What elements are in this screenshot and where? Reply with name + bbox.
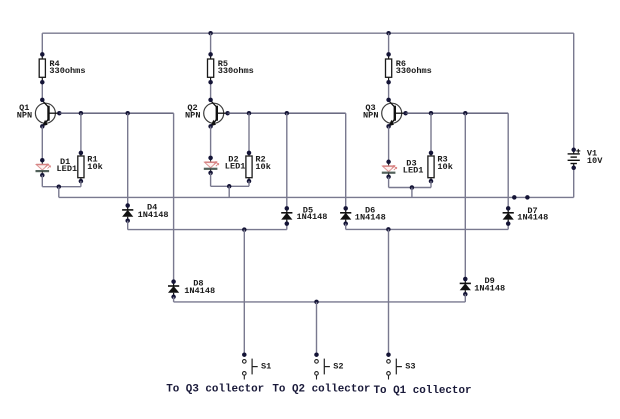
junction V1 positive pin (571, 148, 576, 153)
resistor R4 (39, 54, 45, 82)
label R3 10k (437, 155, 452, 172)
label S3 (405, 362, 415, 372)
junction node stage1 cathode (57, 184, 62, 189)
diode D5 (281, 208, 292, 223)
transistor Q2 (204, 101, 228, 127)
wire R5 to Q2 collector (210, 82, 212, 100)
wire battery negative drop (573, 168, 575, 198)
junction bus2a S1 tap (242, 227, 247, 232)
wire stage3 to ground bus (411, 188, 413, 198)
svg-text:To Q2 collector: To Q2 collector (272, 384, 370, 396)
svg-text:LED1: LED1 (57, 164, 78, 174)
wire Q3 emitter to D3 (388, 126, 390, 162)
LED D2 (204, 158, 219, 173)
transistor Q1 (35, 101, 59, 127)
transistor Q3 (382, 101, 406, 127)
wire LED1 bottom bus (42, 186, 81, 188)
resistor R5 (208, 54, 214, 82)
switch S1 (243, 359, 258, 380)
junction Q3 collector pin (386, 98, 391, 103)
svg-text:330ohms: 330ohms (396, 66, 432, 76)
wire D1 cathode drop (41, 175, 43, 187)
wire D9 anode drop (464, 294, 466, 302)
junction node stage3 cathode (410, 185, 415, 190)
junction D2 anode pin (208, 156, 213, 161)
wire Q1 base bus (59, 112, 173, 114)
label Q3 NPN (363, 103, 378, 120)
junction D8 cathode pin (171, 279, 176, 284)
junction Q3 base pin (403, 111, 408, 116)
wire R5 to rail (210, 33, 212, 55)
wire R4 to rail (41, 33, 43, 55)
junction node stage2 cathode (227, 184, 232, 189)
junction rail stage2 (208, 31, 213, 36)
junction R6 bottom pin (386, 80, 391, 85)
junction Q2 emitter pin (208, 124, 213, 128)
diode D6 (340, 208, 351, 223)
junction S3 top pin (386, 352, 391, 357)
junction D1 anode pin (40, 158, 45, 163)
label Q2 NPN (185, 103, 200, 120)
wire R1 bottom drop (80, 181, 82, 187)
svg-text:S3: S3 (405, 362, 415, 372)
svg-text:LED1: LED1 (403, 165, 424, 175)
label D7 1N4148 (517, 206, 548, 223)
wire bus2a D4-S1-D5 (128, 229, 287, 231)
wire R2 bottom drop (248, 181, 250, 186)
label D4 1N4148 (138, 203, 169, 220)
junction D3 cathode pin (386, 175, 391, 180)
label S2 (333, 362, 343, 372)
svg-text:10V: 10V (587, 156, 603, 166)
junction D9 anode pin (463, 292, 468, 297)
junction D7 cathode pin (506, 206, 511, 211)
svg-text:10k: 10k (87, 162, 102, 172)
junction R2 top pin (247, 151, 252, 156)
label R4 330ohms (49, 59, 85, 76)
junction R5 bottom pin (208, 80, 213, 85)
svg-text:1N4148: 1N4148 (138, 210, 169, 220)
wire base1 to R1 (80, 113, 82, 153)
svg-text:330ohms: 330ohms (218, 66, 254, 76)
junction D1 cathode pin (40, 173, 45, 178)
wire R6 to rail (388, 33, 390, 55)
junction R6 top pin (386, 52, 391, 57)
label D3 LED1 (403, 158, 424, 175)
junction D6 anode pin (343, 221, 348, 226)
junction S1 top pin (242, 352, 247, 357)
wire bus2b D6-S3-D7 (346, 228, 509, 230)
svg-text:NPN: NPN (17, 110, 32, 120)
wire ground bus (59, 196, 574, 198)
svg-text:S2: S2 (333, 362, 343, 372)
junction base1-R1 (79, 111, 84, 116)
junction D4 anode pin (125, 218, 130, 223)
junction Q1 collector pin (40, 98, 45, 103)
wire D5 anode riser (286, 224, 288, 230)
junction D4 cathode pin (125, 203, 130, 208)
label D9 1N4148 (474, 276, 505, 294)
resistor R2 (246, 151, 252, 183)
svg-text:S1: S1 (261, 362, 271, 372)
wire stage1 to ground bus (58, 187, 60, 198)
junction Q2 collector pin (208, 98, 213, 103)
junction ground bus joint b (525, 195, 530, 200)
wire stage2 to ground bus (228, 186, 230, 197)
label R6 330ohms (396, 59, 432, 76)
junction D2 cathode pin (208, 171, 213, 176)
junction base2-D5 (285, 111, 290, 116)
label D2 LED1 (225, 155, 246, 172)
svg-text:1N4148: 1N4148 (355, 213, 386, 223)
wire Q2 base bus drop to D6 (345, 113, 347, 209)
svg-text:LED1: LED1 (225, 162, 246, 172)
label V1 10V (587, 149, 603, 166)
wire R6 to Q3 collector (388, 82, 390, 100)
svg-text:1N4148: 1N4148 (184, 286, 215, 296)
junction D8 anode pin (171, 295, 176, 300)
label D5 1N4148 (297, 205, 328, 222)
wire D3 cathode drop (388, 177, 390, 188)
junction bus2b S3 tap (386, 227, 391, 232)
wire D6 anode drop (345, 224, 347, 230)
wire base1 to D4 anode (127, 113, 129, 206)
junction R3 top pin (429, 151, 434, 156)
label R2 10k (255, 155, 270, 172)
wire Q2 emitter to D2 (210, 126, 212, 158)
junction R3 bottom pin (429, 179, 434, 184)
junction R5 top pin (208, 52, 213, 57)
label R1 10k (87, 155, 102, 172)
wire LED3 bottom bus (389, 187, 431, 189)
wire S2 column (316, 302, 318, 355)
wire base3 to D9 cathode (464, 113, 466, 279)
junction D5 cathode pin (285, 206, 290, 211)
junction D3 anode pin (386, 160, 391, 165)
diode D9 (460, 279, 471, 294)
wire LED2 bottom bus (211, 185, 249, 187)
wire D2 cathode drop (210, 173, 212, 186)
wire base2 to R2 (248, 113, 250, 153)
junction D6 cathode pin (343, 206, 348, 211)
junction D9 cathode pin (463, 277, 468, 282)
svg-text:10k: 10k (437, 162, 452, 172)
diode D4 (122, 206, 133, 221)
label D6 1N4148 (355, 206, 386, 223)
label S1 (261, 362, 271, 372)
LED D3 (382, 162, 397, 177)
wire Q3 base bus drop to D7 (507, 113, 509, 209)
wire top supply rail (42, 32, 573, 34)
wire D4 anode drop (127, 221, 129, 230)
battery V1 (568, 149, 581, 168)
junction R2 bottom pin (247, 179, 252, 184)
svg-text:To Q3 collector: To Q3 collector (166, 384, 264, 396)
junction rail stage3 (386, 31, 391, 36)
junction Q1 emitter pin (40, 124, 45, 128)
junction base3-D9 (463, 111, 468, 116)
resistor R3 (428, 151, 434, 183)
junction D7 anode pin (506, 221, 511, 226)
wire R3 bottom drop (430, 181, 432, 187)
wire Q1 emitter to D1 (41, 126, 43, 160)
svg-text:1N4148: 1N4148 (474, 284, 505, 294)
svg-text:10k: 10k (255, 162, 270, 172)
label Q1 NPN (17, 103, 32, 120)
label D1 LED1 (57, 157, 78, 174)
junction R4 bottom pin (40, 80, 45, 85)
resistor R6 (386, 54, 392, 82)
svg-text:To Q1 collector: To Q1 collector (374, 385, 472, 397)
wire D7 anode riser (507, 224, 509, 230)
svg-text:NPN: NPN (363, 110, 378, 120)
wire battery positive drop (573, 33, 575, 150)
wire R4 to Q1 collector (41, 82, 43, 100)
label R5 330ohms (218, 59, 254, 76)
svg-text:1N4148: 1N4148 (297, 212, 328, 222)
label D8 1N4148 (184, 279, 215, 297)
LED D1 (36, 160, 51, 175)
wire S3 column (388, 229, 390, 354)
svg-text:1N4148: 1N4148 (517, 213, 548, 223)
junction Q3 emitter pin (386, 124, 391, 128)
junction base1-D4 (125, 111, 130, 116)
switch S3 (387, 359, 402, 380)
junction Q1 base pin (57, 111, 62, 116)
wire Q2 base bus (228, 112, 346, 114)
wire S1 column (243, 230, 245, 355)
junction bus3 S2 tap (314, 300, 319, 305)
wire base2 to D5 cathode (286, 113, 288, 209)
junction S2 top pin (314, 352, 319, 357)
wire bus3 D8-S2-D9 (174, 301, 466, 303)
junction ground bus joint a (512, 195, 517, 200)
wire Q3 base bus (406, 112, 509, 114)
diode D8 (168, 282, 179, 297)
switch S2 (315, 359, 330, 380)
svg-text:330ohms: 330ohms (49, 66, 85, 76)
junction R1 top pin (79, 151, 84, 156)
diode D7 (503, 208, 514, 223)
junction R1 bottom pin (79, 179, 84, 184)
resistor R1 (78, 151, 84, 183)
junction base3-R3 (429, 111, 434, 116)
wire Q1 base bus drop to D8 (173, 113, 175, 282)
junction base2-R2 (247, 111, 252, 116)
wire D8 anode drop (173, 297, 175, 302)
junction Q2 base pin (225, 111, 230, 116)
junction D5 anode pin (285, 221, 290, 226)
svg-text:NPN: NPN (185, 110, 200, 120)
junction R4 top pin (40, 52, 45, 57)
wire base3 to R3 (430, 113, 432, 153)
junction V1 negative pin (571, 166, 576, 171)
